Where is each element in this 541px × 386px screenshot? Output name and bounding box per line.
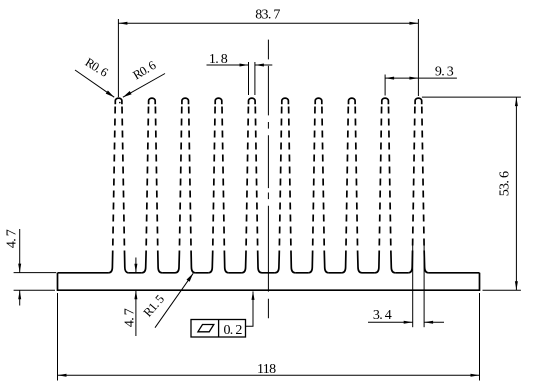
center mark dot at fin 1 tip xyxy=(119,102,121,104)
fin 2 xyxy=(142,98,162,273)
vertical center line of profile xyxy=(267,40,269,319)
fin 6 xyxy=(275,98,295,273)
fin 8 xyxy=(342,98,362,273)
leader R0.6 fin tip radius (left) xyxy=(75,55,114,97)
leader R0.6 fin tip radius (right) xyxy=(123,58,165,97)
svg-text:3. 4: 3. 4 xyxy=(373,308,392,323)
slot bottoms between fins xyxy=(129,272,408,274)
dimension 53.6 overall height xyxy=(422,97,521,290)
leader R1.5 root fillet radius xyxy=(141,273,194,327)
dimension 83.7 overall fin span xyxy=(118,7,418,97)
svg-text:83. 7: 83. 7 xyxy=(255,7,280,22)
fin 4 xyxy=(208,98,228,273)
svg-text:53. 6: 53. 6 xyxy=(497,171,512,196)
svg-text:1. 8: 1. 8 xyxy=(209,52,228,67)
svg-text:9. 3: 9. 3 xyxy=(435,64,454,79)
svg-text:118: 118 xyxy=(257,362,276,377)
svg-text:0. 2: 0. 2 xyxy=(223,323,242,338)
flatness tolerance frame 0.2 xyxy=(191,291,255,338)
svg-text:4. 7: 4. 7 xyxy=(5,229,20,248)
dimension 4.7 base thickness under slot xyxy=(123,258,138,337)
fin 7 xyxy=(308,98,328,273)
dimension 4.7 base thickness (left) xyxy=(5,229,57,306)
fin 3 xyxy=(175,98,195,273)
fin 10 xyxy=(408,98,428,273)
fin 5 xyxy=(242,98,262,273)
dimension 3.4 fin root width xyxy=(368,245,444,327)
fin 9 xyxy=(375,98,395,273)
fin 1 xyxy=(108,98,128,273)
dimension 1.8 fin tip width xyxy=(207,52,273,95)
heatsink base plate outline xyxy=(58,273,480,290)
dimension 9.3 fin pitch xyxy=(385,64,457,95)
dimension 118 overall width xyxy=(58,293,480,381)
svg-text:4. 7: 4. 7 xyxy=(123,308,138,327)
